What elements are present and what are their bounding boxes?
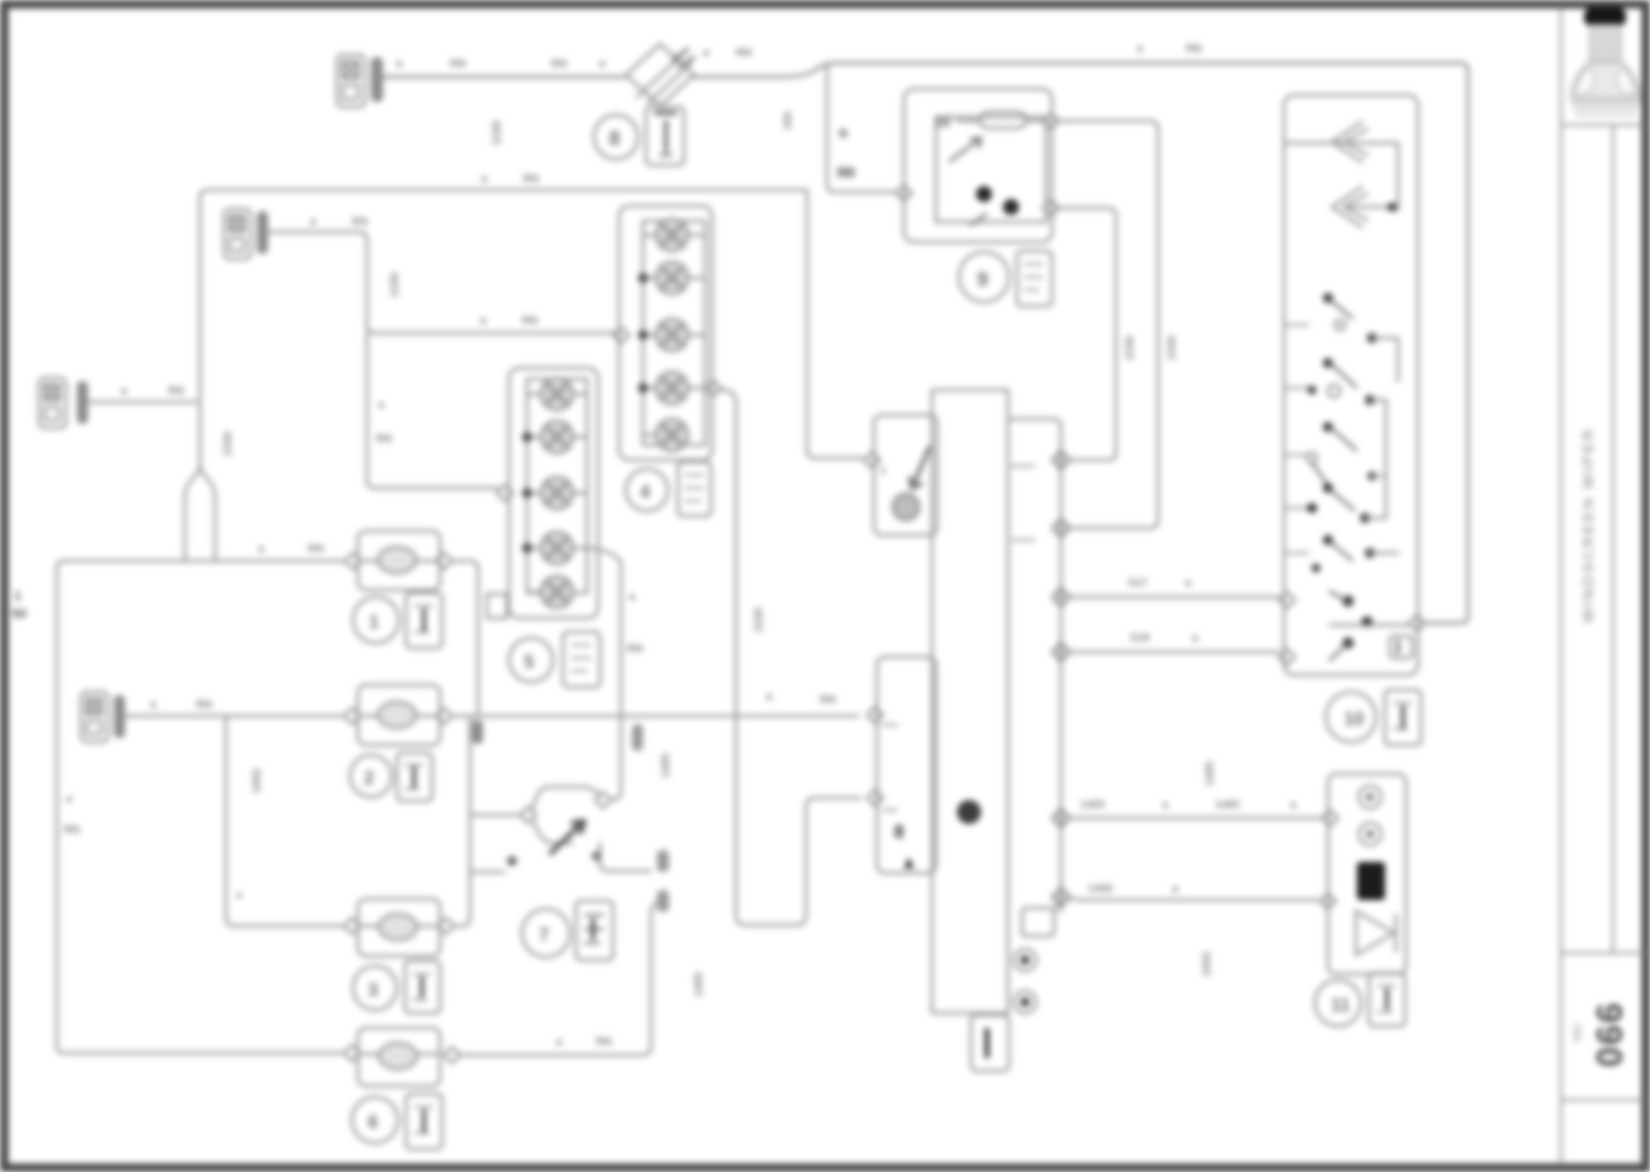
node diamond fusebox left (896, 185, 912, 201)
svg-text:7: 7 (539, 925, 549, 945)
lamp stack 1 inner frame (643, 221, 705, 445)
node diamond R1 left (345, 553, 361, 569)
wire C4 to relay 2 (125, 715, 344, 718)
grommet at C2 (257, 211, 268, 254)
node diamond R2 left (344, 708, 360, 724)
lamp stack 2 box (509, 368, 598, 618)
bus junction node y897 (1052, 883, 1070, 911)
svg-text:RN: RN (838, 167, 854, 179)
sidebar washer icon right lobe (1617, 68, 1634, 96)
sidebar washer icon neck (1590, 25, 1621, 65)
node diamond stack1 left (613, 327, 629, 343)
lamp L3 (643, 319, 703, 351)
wire ignition bottom out (600, 843, 650, 871)
switch contact row 4 (1365, 395, 1386, 405)
svg-text:2150: 2150 (753, 608, 765, 632)
extra switch contacts (1308, 386, 1387, 573)
connector C2 (224, 209, 251, 259)
inline connector pill lower (657, 890, 669, 912)
node diamond fusebox right top (1043, 113, 1059, 129)
sub box lower (intermittent section) (877, 657, 936, 873)
switch contact row 2 (1367, 333, 1398, 343)
sidebar divider under icon (1561, 124, 1643, 127)
diode bar (1395, 915, 1398, 951)
lamp L1 (643, 219, 703, 251)
node diamond switch feed2 (1279, 649, 1295, 665)
svg-text:a: a (1192, 632, 1199, 644)
motor armature black block (1357, 862, 1385, 900)
labels above y652 wire (1130, 632, 1199, 644)
sidebar washer icon black cap (1584, 7, 1626, 27)
bus junction node y528 (1052, 514, 1070, 542)
relay R3 box (358, 899, 440, 956)
stack2 bus junction dots (522, 432, 532, 553)
connector C1 (337, 55, 365, 107)
wire C2 to lamp stack 1 (268, 232, 616, 333)
svg-text:1455: 1455 (1215, 799, 1239, 811)
wire ignition lower contact branch (470, 871, 504, 874)
svg-text:RN: RN (551, 58, 567, 70)
bus junction node y597 (1052, 583, 1070, 611)
grommet at C3 (77, 381, 88, 424)
svg-text:6: 6 (368, 1112, 378, 1132)
svg-text:a: a (150, 699, 157, 711)
svg-text:9: 9 (977, 269, 988, 291)
connector detail rect below fusebox (1017, 251, 1052, 306)
svg-text:1455: 1455 (660, 754, 672, 778)
svg-text:1: 1 (14, 588, 21, 603)
svg-text:30: 30 (936, 115, 950, 130)
connector detail rect below R4 (406, 1094, 442, 1149)
node diamond switch feed1 (1279, 592, 1295, 608)
switch contact row 1 (1323, 293, 1352, 330)
svg-text:3: 3 (368, 980, 378, 1000)
lamp stack 1 box (619, 206, 712, 460)
node diamond stack2 left (497, 485, 513, 501)
sub box upper contact circle (893, 494, 919, 520)
sidebar divider above page number (1561, 952, 1643, 955)
connector detail rect below ignition (576, 901, 613, 960)
lamp L2 (643, 262, 703, 294)
labels above y900 wire (1088, 883, 1179, 895)
connector detail rect below rear wiper (1369, 973, 1405, 1026)
switch bottom contacts (1330, 592, 1410, 660)
lamp M2 (527, 421, 587, 453)
svg-text:5: 5 (524, 652, 534, 672)
svg-text:2402: 2402 (251, 769, 263, 793)
wire bus to wiper switch pos2 (1069, 651, 1278, 654)
labels above y597 wire (1128, 577, 1192, 589)
switch contact row 3 (1323, 358, 1356, 397)
svg-text:1: 1 (880, 465, 886, 477)
circle code below R1 (353, 597, 399, 643)
svg-text:S18: S18 (1130, 632, 1150, 644)
labels on left vertical x57 (64, 793, 80, 836)
wire labels on vertical x367 lower (376, 399, 392, 445)
svg-text:a: a (703, 47, 710, 59)
svg-text:a: a (236, 889, 243, 901)
svg-text:a: a (840, 127, 847, 139)
wire C3 to junction (88, 401, 196, 404)
labels above top wire (396, 43, 1202, 70)
lamp L4 (643, 372, 703, 404)
svg-text:a: a (556, 1036, 563, 1048)
sidebar washer icon bell (1571, 62, 1640, 98)
node diamond ignition left (520, 807, 536, 823)
svg-text:8: 8 (894, 822, 904, 842)
switch contact row 7 (1323, 483, 1354, 510)
central right pin box (1022, 898, 1061, 936)
lamp M5 (527, 576, 573, 608)
svg-text:a: a (766, 691, 773, 703)
circle code below rear wiper (1315, 980, 1361, 1026)
circle code below ignition (522, 909, 570, 957)
node diamond switch out right (1409, 615, 1425, 631)
connector detail rect below R3 (405, 961, 440, 1013)
node diamond R4 left (344, 1045, 360, 1061)
motor brush circle 2 (1359, 823, 1381, 845)
svg-text:a: a (629, 591, 636, 603)
svg-text:150: 150 (782, 112, 794, 130)
circle code below fusebox (959, 252, 1009, 302)
wire bottom distribution (y1053) (57, 1046, 343, 1053)
node diamond rear wiper feed2 (1320, 893, 1336, 909)
node diamond fusebox right bottom (1043, 200, 1059, 216)
svg-text:10: 10 (1344, 709, 1364, 729)
wire ignition feed branch (470, 814, 518, 817)
relay R2 box (358, 685, 440, 745)
sub box upper lever (910, 448, 929, 488)
switch chevron arrow 1 (1332, 122, 1367, 162)
wire bus to rear wiper feed (1069, 817, 1320, 820)
sub box lower pin stubs (883, 725, 897, 810)
wire R2 out (long feed y716) (452, 715, 858, 718)
bullet connector upper on central right edge (1014, 949, 1036, 971)
stack2 bottom pin box (487, 594, 507, 618)
wire bus to rear wiper low (1069, 897, 1318, 900)
circle code E below diamond (594, 115, 638, 159)
central bottom connector (971, 1015, 1009, 1071)
sidebar washer icon hatch lines (1572, 102, 1639, 105)
switch divider line (1284, 142, 1396, 145)
ignition switch body (533, 787, 599, 808)
grommet at C4 (114, 695, 125, 738)
svg-text:a: a (1185, 577, 1192, 589)
labels above C2 wire (310, 216, 538, 327)
switch internal vertical b (1385, 400, 1388, 518)
connector detail rect below stack1 (678, 462, 711, 516)
svg-text:RN: RN (196, 699, 212, 711)
junction dot central (957, 800, 981, 824)
node diamond R3 right (438, 918, 454, 934)
labels above C3 wire (121, 385, 184, 397)
ignition switch lever (551, 821, 584, 853)
svg-text:1455: 1455 (1080, 799, 1104, 811)
svg-text:8: 8 (609, 128, 620, 150)
svg-text:2: 2 (364, 768, 374, 788)
svg-text:11: 11 (1331, 995, 1350, 1015)
svg-text:RN: RN (450, 58, 466, 70)
connector C3 (39, 378, 66, 428)
lamp M1 (527, 378, 587, 410)
svg-text:a: a (66, 793, 73, 805)
bus junction node y652 (1052, 638, 1070, 666)
wire R3 out up (454, 716, 470, 926)
labels at left frame edge (12, 588, 26, 621)
svg-text:RN: RN (627, 643, 643, 655)
switch pin box (1390, 636, 1412, 658)
node diamond stack1 right (705, 380, 721, 396)
switch contact row 8 (1307, 503, 1386, 523)
wire branch down to relay 3 (226, 716, 344, 926)
connector detail rect below R1 (406, 593, 442, 648)
circle code below R4 (352, 1097, 398, 1143)
switch internal vertical c (1397, 338, 1400, 381)
circle code below stack1 (626, 469, 668, 511)
svg-text:1455: 1455 (1204, 762, 1216, 786)
svg-text:RN: RN (168, 385, 184, 397)
svg-text:a: a (121, 385, 128, 397)
sidebar divider below page number (1561, 1099, 1643, 1102)
svg-text:RN: RN (1186, 43, 1202, 55)
svg-text:2150: 2150 (222, 432, 234, 456)
wire battery feed top (384, 75, 624, 78)
svg-text:RN: RN (522, 315, 538, 327)
connector detail rect below R2 (397, 753, 432, 801)
connector detail rect below diamond (646, 107, 684, 165)
node diamond sub box lower feed2 (867, 790, 883, 806)
wire branch down to fusebox (827, 63, 897, 192)
wire fusebox out a (to bus) (1059, 121, 1158, 528)
lamp M4 (527, 532, 587, 564)
svg-text:a: a (1172, 883, 1179, 895)
node diamond rear wiper feed1 (1322, 810, 1338, 826)
labels on vertical x621 (627, 591, 643, 655)
sidebar middle column line (1612, 125, 1615, 953)
wire link pills (651, 903, 657, 913)
bus junction node y818 (1052, 804, 1070, 832)
switch contact dot 2 (1388, 203, 1397, 212)
switch contact line 2 (1344, 206, 1390, 209)
junction diamond with slash (theft device) (626, 44, 694, 106)
svg-text:a: a (1137, 43, 1144, 55)
svg-text:a: a (378, 399, 385, 411)
svg-text:RN: RN (64, 824, 80, 836)
switch contact row 6 (1307, 453, 1330, 488)
svg-text:a: a (258, 543, 265, 555)
wire R1 out down (452, 561, 478, 716)
svg-text:a: a (1290, 799, 1297, 811)
wire fusebox out b (to bus) (1059, 208, 1116, 460)
motor brush circle 1 (1359, 786, 1381, 808)
lamp M3 (527, 477, 587, 509)
bus junction node y460 (1052, 446, 1070, 474)
connector detail rect below switch (1385, 690, 1421, 745)
central right edge pin ticks (1012, 466, 1034, 540)
wire branch down to lamp stack 2 (367, 333, 498, 488)
svg-text:50: 50 (12, 606, 26, 621)
wire ignition right up to y716 (611, 716, 621, 800)
labels above y561 wire (258, 543, 324, 555)
svg-text:RN: RN (523, 173, 539, 185)
wire stack1 right out (to control unit) (721, 390, 860, 925)
svg-text:a: a (481, 173, 488, 185)
wire R4 out to ignition lower chain (458, 913, 651, 1055)
svg-text:2150: 2150 (1166, 336, 1178, 360)
svg-text:RN: RN (352, 216, 368, 228)
central control unit box (932, 390, 1008, 1013)
ignition contact dots (507, 856, 517, 866)
switch contact row 5 (1323, 422, 1356, 450)
svg-text:RN: RN (820, 694, 836, 706)
wire splice split (arch) (185, 463, 215, 558)
diode triangle (1356, 911, 1394, 955)
grommet at C1 (371, 57, 383, 102)
wire top feed right (694, 63, 1468, 623)
sub box upper (wash pump section) (874, 415, 937, 535)
relay R4 box (358, 1028, 440, 1086)
labels above R4 out wire (556, 1036, 612, 1048)
labels above y190 wire (481, 173, 539, 185)
connector stub pill below y716 wire (632, 724, 643, 751)
labels above y716 wire right (766, 691, 836, 706)
sub box lower glyphs (894, 822, 918, 872)
svg-text:2150: 2150 (1124, 336, 1136, 360)
stack1 bus junction dots (638, 273, 648, 393)
svg-text:1455: 1455 (1088, 883, 1112, 895)
sidebar washer icon left lobe (1577, 68, 1594, 96)
wire main loop top (y190) (200, 190, 807, 463)
lamp L5 (643, 419, 688, 451)
switch contact row 9 (1323, 535, 1398, 560)
svg-text:4: 4 (640, 482, 650, 502)
node diamond R3 left (344, 918, 360, 934)
inline connector pill upper (657, 850, 669, 872)
svg-text:1455: 1455 (693, 973, 705, 997)
sidebar separator line (1560, 8, 1563, 1164)
svg-text:2150: 2150 (389, 273, 401, 297)
switch left pin stubs (1284, 325, 1308, 553)
svg-text:▲: ▲ (900, 852, 918, 872)
circle code below R2 (350, 755, 392, 797)
svg-text:RN: RN (736, 47, 752, 59)
svg-text:a: a (1162, 799, 1169, 811)
node diamond sub box lower feed (867, 707, 883, 723)
svg-text:2402: 2402 (1201, 952, 1213, 976)
relay R1 box (358, 531, 440, 590)
svg-text:a: a (480, 315, 487, 327)
svg-text:a: a (396, 58, 403, 70)
svg-text:a: a (310, 216, 317, 228)
node diamond R2 right (436, 708, 452, 724)
svg-text:RN: RN (596, 1036, 612, 1048)
svg-text:2150: 2150 (491, 121, 503, 145)
wire distribution left (y561) (57, 561, 343, 1046)
fuse box top right (904, 89, 1052, 242)
wire main loop right into sub box upper (807, 190, 862, 458)
svg-text:RN: RN (376, 433, 392, 445)
wire stack2 bus down to y716 junction (587, 548, 621, 716)
node diamond R4 right (444, 1047, 460, 1063)
rear wiper motor box (1328, 774, 1406, 974)
wiper switch box (1284, 95, 1418, 675)
switch chevron arrow 2 (1332, 187, 1367, 227)
labels above y818 wire (1080, 799, 1297, 811)
svg-text:066: 066 (1589, 1001, 1630, 1067)
circle code below switch (1326, 692, 1376, 742)
node diamond R1 right (436, 553, 452, 569)
circle code below stack2 (509, 638, 553, 682)
svg-text:S17: S17 (1128, 577, 1148, 589)
connector detail rect below stack2 (563, 632, 600, 687)
switch internal vertical a (1397, 143, 1400, 210)
svg-text:RN: RN (308, 543, 324, 555)
svg-text:WD: WD (1572, 1024, 1584, 1042)
bullet connector lower on central right edge (1014, 991, 1036, 1013)
svg-text:a: a (599, 58, 606, 70)
svg-text:1: 1 (369, 612, 379, 632)
wire bus to wiper switch pos1 (1069, 596, 1278, 599)
connector C4 (81, 692, 108, 742)
wire central top pin to bus (1008, 419, 1061, 893)
svg-text:WINDSCREEN WIPER: WINDSCREEN WIPER (1580, 427, 1597, 623)
node diamond ignition right (595, 792, 611, 808)
node diamond sub box upper left (864, 452, 880, 468)
lamp stack 2 inner frame (527, 379, 587, 593)
labels above C4 wire (150, 699, 212, 711)
grommet pill below y716 wire at x478 (472, 720, 483, 744)
circle code below R3 (353, 966, 397, 1010)
